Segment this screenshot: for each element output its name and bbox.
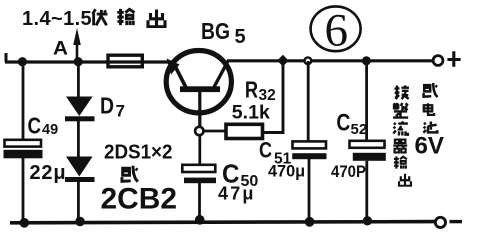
wire: C49 branch lower <box>22 157 25 222</box>
capacitor C50 label <box>222 159 258 191</box>
terminal: + output <box>433 51 461 67</box>
junction: R32 branch / top rail (diamond) <box>277 55 289 67</box>
svg-text:6V: 6V <box>415 133 445 160</box>
wire: base node to R32 <box>204 130 227 133</box>
transistor BG5 label <box>201 18 246 48</box>
svg-text:5: 5 <box>235 26 246 48</box>
wire: bottom rail <box>10 222 435 223</box>
capacitor C49 <box>4 140 43 159</box>
wire: diode branch top <box>77 62 80 98</box>
wire: base node down to C50 <box>198 135 201 165</box>
junction: C50 / bottom rail <box>195 215 205 225</box>
svg-text:49: 49 <box>42 122 58 138</box>
node A label <box>53 39 68 60</box>
svg-text:A: A <box>53 39 68 60</box>
text: 5.1k <box>232 102 270 124</box>
svg-text:470μ: 470μ <box>268 163 305 181</box>
svg-text:22μ: 22μ <box>30 162 67 184</box>
wire: R32 to top rail <box>263 61 284 133</box>
wire: C52 branch top <box>365 61 368 141</box>
svg-text:7: 7 <box>116 102 125 121</box>
diode D7 label <box>100 93 125 121</box>
resistor R32 <box>226 124 263 138</box>
svg-text:52: 52 <box>351 121 368 138</box>
arrow at node A <box>73 28 81 60</box>
capacitor C49 label <box>28 112 59 138</box>
wire: C51 bottom <box>308 159 311 222</box>
diode D7 <box>65 97 95 122</box>
svg-text:R: R <box>245 77 258 103</box>
svg-text:BG: BG <box>201 18 230 44</box>
figure number 6 <box>311 5 361 57</box>
resistor R32 label <box>245 77 276 105</box>
junction: diode branch / bottom rail <box>75 217 85 227</box>
text: right label column 接整流器输出 <box>393 85 411 185</box>
junction: C49 branch / top rail <box>18 57 27 66</box>
capacitor C51 <box>292 141 326 159</box>
svg-text:2DS1×2: 2DS1×2 <box>104 142 173 164</box>
junction: C51 / bottom rail <box>305 217 315 227</box>
wire: C52 bottom <box>365 161 368 222</box>
capacitor C51 label <box>259 138 292 168</box>
junction: base node (small ring) <box>195 127 203 135</box>
svg-text:2CB2: 2CB2 <box>101 183 178 216</box>
wire: diode branch bottom <box>77 182 80 222</box>
transistor BG5 <box>166 50 231 128</box>
wire: C50 to bottom rail <box>198 183 201 221</box>
capacitor C52 label <box>336 109 367 138</box>
wire: between diodes <box>77 121 80 158</box>
text: 22μ <box>30 162 67 184</box>
wire: C49 branch upper <box>22 62 25 141</box>
junction: C52 / bottom rail <box>363 216 372 225</box>
wire: C51 branch top <box>307 61 310 142</box>
svg-text:C: C <box>336 109 350 136</box>
resistor (unlabeled, series output) <box>108 55 142 67</box>
text: right label column 或电池6V <box>415 83 445 159</box>
wire: top rail right <box>227 59 433 62</box>
text: 470μ <box>268 163 305 181</box>
junction: C49 / bottom rail <box>20 218 30 228</box>
junction: C52 branch / top rail <box>362 56 371 65</box>
junction: C51 branch / top rail (small ring) <box>305 57 312 64</box>
capacitor C50 <box>182 165 216 183</box>
wire: top rail left <box>5 60 169 63</box>
text: 2DS1x2 <box>104 142 173 164</box>
svg-text:C: C <box>259 138 272 163</box>
svg-text:5.1k: 5.1k <box>232 102 270 124</box>
text: output label 1.4~1.5伏输出 <box>22 8 165 30</box>
text: 2CB2 <box>101 183 178 216</box>
svg-text:1.4~1.5: 1.4~1.5 <box>22 8 92 30</box>
svg-text:C: C <box>28 112 42 138</box>
text: 470P <box>331 162 366 181</box>
text: 或 (or) <box>121 166 138 182</box>
svg-text:470P: 470P <box>331 162 366 181</box>
capacitor C52 <box>350 141 386 161</box>
svg-text:47μ: 47μ <box>218 184 256 204</box>
terminal: - output <box>435 217 462 227</box>
svg-text:6: 6 <box>325 5 349 57</box>
text: 47μ <box>218 184 256 204</box>
diode D8 (unlabeled, second of 2DS1x2) <box>65 157 95 183</box>
wire: top rail left end tick <box>5 53 8 62</box>
svg-text:D: D <box>100 93 114 119</box>
junction: node A dot <box>74 57 83 66</box>
